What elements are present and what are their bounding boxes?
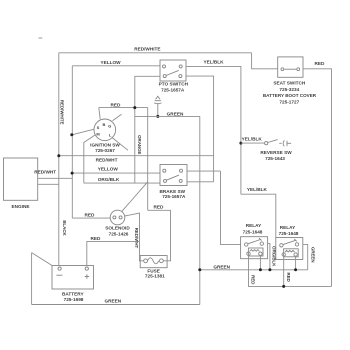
wire ignition M to ORG/BLK [84,135,96,183]
wire relay K2 coil right stub to GREEN [259,255,261,269]
svg-text:RED/WHT: RED/WHT [134,228,139,249]
svg-text:B: B [102,122,105,127]
wire GREEN relay horizontal [200,269,308,271]
wire RED/WHITE drop to seat switch [252,53,278,69]
wire ground strap vertical [31,253,33,305]
battery BT1 [52,266,94,290]
node RED/WHT bus junction [57,154,60,157]
svg-text:ORG/BLK: ORG/BLK [98,177,120,182]
svg-text:725-1657A: 725-1657A [162,194,186,199]
wire brake junction down to relay K2 [221,171,241,244]
svg-text:YEL/BLK: YEL/BLK [242,136,263,141]
svg-text:RED/WHITE: RED/WHITE [134,47,160,52]
relay K3 [276,238,303,260]
wire YEL/BLK reverse junction [239,142,242,145]
stray mark top-left [39,37,43,39]
wire engine black to bus [38,183,59,185]
svg-text:725-0267: 725-0267 [95,148,115,153]
svg-text:725-1648: 725-1648 [279,231,299,236]
svg-text:G: G [108,123,111,128]
svg-text:REVERSE SW: REVERSE SW [260,150,292,155]
wire solenoid right to fuse [125,213,144,261]
wire YEL/BLK from PTO right [186,66,241,194]
node relay K2 green junction [259,268,262,271]
wire YELLOW top horizontal [72,65,160,67]
svg-text:RED: RED [91,236,102,241]
wire RED battery to fuse [87,241,140,265]
wire RED fuse-brake horizontal [148,210,171,260]
node RED relay K3 junction [282,285,285,288]
wire relay K2 right to green [268,244,270,270]
wire solenoid to orange junction diagonal [122,182,148,212]
svg-text:725-1657A: 725-1657A [161,87,185,92]
ENGINE box [4,158,38,209]
svg-text:RED/WHITE: RED/WHITE [59,100,64,125]
svg-text:ORANGE: ORANGE [137,135,142,154]
svg-text:RED/WHT: RED/WHT [34,169,56,174]
wire YEL/BLK to relay2 [241,194,276,237]
wire relay K3 right to green [303,244,308,269]
wire brake top-right [187,170,221,172]
svg-text:RED/WHT: RED/WHT [96,157,118,162]
brake switch S3 box [160,165,187,186]
wire PTO bottom-left to vertical [135,76,160,183]
svg-text:RELAY: RELAY [246,223,262,228]
svg-text:SOLENOID: SOLENOID [105,226,130,231]
svg-text:RELAY: RELAY [280,225,296,230]
svg-text:IGNITION SW: IGNITION SW [90,142,120,147]
svg-text:BATTERY BOOT COVER: BATTERY BOOT COVER [263,93,317,98]
svg-text:725-3234: 725-3234 [279,87,299,92]
svg-text:725-1426: 725-1426 [109,231,129,236]
wire GREEN middle horizontal [135,115,200,117]
solenoid K1 [110,210,125,225]
svg-text:YEL/BLK: YEL/BLK [203,60,224,65]
svg-text:725-1643: 725-1643 [265,156,285,161]
wire brake bottom-right to relay1 [187,181,214,183]
svg-text:GREEN: GREEN [167,111,184,116]
svg-text:BATTERY: BATTERY [62,291,84,296]
svg-text:GREEN: GREEN [104,299,121,304]
svg-text:725-1381: 725-1381 [145,274,165,279]
wire GREEN bottom horizontal [32,304,200,306]
wire ignition L stub [112,138,128,151]
wire RED/WHITE-BLACK left bus vertical [58,53,60,266]
wire RED bottom horizontal [248,285,332,287]
svg-text:YEL/BLK: YEL/BLK [247,187,268,192]
wire ignition S to yellow bus [72,129,94,135]
svg-text:RED: RED [286,273,291,282]
svg-text:GREEN: GREEN [310,247,315,263]
seat switch S2 box [278,57,303,77]
wire RED ignition horizontal [99,107,148,109]
PTO switch U1 box [160,60,186,81]
ignition switch SW1 [94,119,116,141]
battery strap diagonal [32,253,52,266]
svg-text:GREEN: GREEN [213,265,230,270]
wire engine to yellow bus [38,177,73,179]
wire RED from seat switch [303,69,332,287]
relay K2 [241,237,268,259]
node relay K3 green junction [294,268,297,271]
svg-text:725-1698: 725-1698 [64,297,84,302]
fuse F1 [140,256,167,268]
node RED crossing [133,106,136,109]
svg-text:SEAT SWITCH: SEAT SWITCH [273,80,306,85]
wire relay K3 coil left stub to RED [283,256,285,286]
node GREEN junction left [198,268,201,271]
svg-text:ENGINE: ENGINE [12,204,30,209]
wire ORG/BLK middle horizontal [84,182,160,184]
wire ignition G stub [113,114,122,121]
node S-yellow bus junction [70,133,73,136]
svg-text:S: S [97,125,100,130]
svg-text:PTO SWITCH: PTO SWITCH [159,82,189,87]
wire PTO bottom-right down [186,76,214,182]
svg-text:RED: RED [85,213,96,218]
node YELLOW bus junction [71,172,74,175]
wire RED to solenoid [72,217,110,219]
wire ORANGE vertical [147,108,149,211]
wire RED/WHITE top horizontal [59,52,252,54]
wire ignition B to RED [99,108,100,120]
wire YELLOW bus vertical [71,66,73,218]
wire YELLOW middle horizontal [72,172,160,174]
svg-text:YELLOW: YELLOW [98,167,119,172]
svg-text:725-1648: 725-1648 [243,229,263,234]
svg-text:RED: RED [315,61,326,66]
wire RED/WHT middle horizontal [59,155,214,157]
svg-text:725-1727: 725-1727 [279,100,299,105]
wire relay K3 coil right stub to GREEN [295,256,297,270]
node ground-green junction [156,115,159,118]
svg-text:RED: RED [250,275,255,284]
reverse switch S4 [241,140,291,147]
wire relay K2 coil left stub to RED [248,255,250,286]
ground symbol near PTO [154,96,161,116]
svg-text:RED: RED [154,205,165,210]
wire GREEN vertical [199,116,201,304]
node relay K2 right green junction [268,268,271,271]
svg-text:RED: RED [111,103,122,108]
svg-text:BLACK: BLACK [62,220,67,236]
svg-text:YELLOW: YELLOW [100,60,121,65]
